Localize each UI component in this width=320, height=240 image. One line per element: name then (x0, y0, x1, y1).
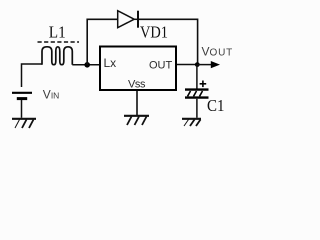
ground under C1 (182, 119, 201, 126)
wire VOUT arrow (197, 64, 211, 66)
diode VD1 (118, 11, 138, 28)
node junction at OUT (195, 62, 200, 67)
capacitor C1 (185, 90, 209, 98)
svg-text:VD1: VD1 (140, 23, 168, 42)
battery VIN (12, 93, 32, 99)
svg-text:VIN: VIN (43, 87, 60, 101)
wire C1 to ground (196, 99, 198, 118)
svg-text:C1: C1 (207, 96, 225, 115)
svg-text:VOUT: VOUT (202, 45, 234, 59)
wire rail to IC (72, 64, 99, 66)
ground under Vss (124, 116, 149, 125)
wire Vss pin (136, 91, 138, 115)
wire battery to ground (21, 100, 23, 118)
plus sign (200, 81, 207, 88)
svg-text:OUT: OUT (149, 60, 173, 72)
svg-text:Lx: Lx (104, 56, 117, 70)
wire riser to diode (87, 19, 117, 65)
svg-text:Vss: Vss (128, 79, 146, 91)
wire diode to right corner (138, 19, 198, 64)
IC U1 box (100, 47, 176, 91)
svg-text:L1: L1 (49, 23, 66, 42)
inductor core dashed line (38, 41, 80, 43)
wire OUT pin (177, 64, 198, 66)
ground under VIN (12, 119, 36, 128)
wire VIN riser (22, 64, 43, 87)
node junction at Lx (84, 62, 90, 68)
inductor L1 (42, 47, 72, 65)
wire junction to C1 (196, 65, 198, 89)
